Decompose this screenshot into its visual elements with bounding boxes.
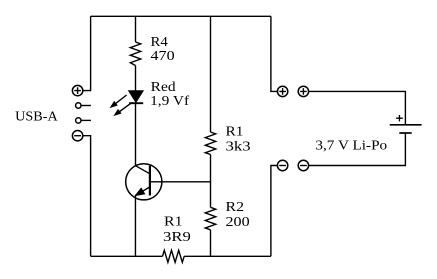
svg-text:R1: R1 [164, 214, 183, 229]
resistor R1 (3k3) [205, 132, 215, 155]
wire: transistor emitter to bottom rail [134, 196, 136, 257]
wire: LED cathode to transistor collector [135, 103, 137, 166]
svg-text:USB-A: USB-A [15, 109, 58, 124]
connector plus pin (circuit side) [277, 86, 287, 96]
svg-text:470: 470 [151, 48, 175, 63]
LED light emission arrows [110, 95, 132, 116]
label R1 3R9 [163, 214, 191, 244]
wire: top net (USB + rail) [91, 15, 271, 17]
svg-text:3k3: 3k3 [226, 138, 251, 153]
wire: battery plus lead [309, 91, 406, 124]
resistor R4 [130, 42, 140, 66]
wire: battery minus lead [309, 133, 406, 166]
svg-text:3,7 V Li-Po: 3,7 V Li-Po [315, 138, 387, 153]
svg-text:3R9: 3R9 [163, 229, 191, 244]
wire: R2 to bottom rail [210, 230, 212, 256]
label R4 470 [151, 34, 175, 63]
wire: minus connector down to bottom rail [271, 166, 278, 257]
svg-text:R4: R4 [151, 34, 169, 49]
USB-A plus terminal [72, 85, 82, 95]
wire: bottom rail left segment [91, 255, 163, 257]
svg-text:R2: R2 [226, 199, 245, 214]
resistor R1 (3R9, bottom shunt) [163, 250, 185, 262]
connector minus pin (battery side) [298, 160, 308, 170]
battery BT1 [390, 115, 422, 133]
svg-text:1,9 Vf: 1,9 Vf [150, 93, 190, 108]
label R2 200 [226, 199, 250, 229]
wire: middle branch from top rail to R1 [210, 16, 212, 132]
svg-text:R1: R1 [226, 123, 244, 138]
wire: bottom rail right segment [184, 255, 271, 257]
label R1 3k3 [226, 123, 251, 153]
wire: left vertical from top rail down to USB-A plus terminal [83, 16, 91, 90]
LED D1 (red) [129, 91, 143, 103]
transistor Q1 (NPN) [126, 164, 162, 200]
svg-text:Red: Red [151, 79, 176, 94]
connector minus pin (circuit side) [277, 160, 287, 170]
wire: R1 to R2 through base junction [210, 155, 212, 208]
USB-A data pin (lower) [76, 118, 91, 123]
wire: transistor base to R1/R2 junction [150, 181, 211, 183]
USB-A data pin (upper) [76, 103, 91, 108]
wire: R4 to LED anode [135, 66, 137, 92]
label Red 1,9 Vf [150, 79, 190, 108]
wire: right vertical from top rail to plus connector [271, 16, 278, 91]
svg-text:200: 200 [226, 214, 250, 229]
connector plus pin (battery side) [298, 86, 308, 96]
USB-A minus terminal [72, 131, 82, 141]
wire: left vertical from USB-A minus down to bottom rail [83, 136, 91, 257]
wire: R4 branch from top rail [135, 16, 137, 42]
resistor R2 (200) [205, 207, 215, 230]
